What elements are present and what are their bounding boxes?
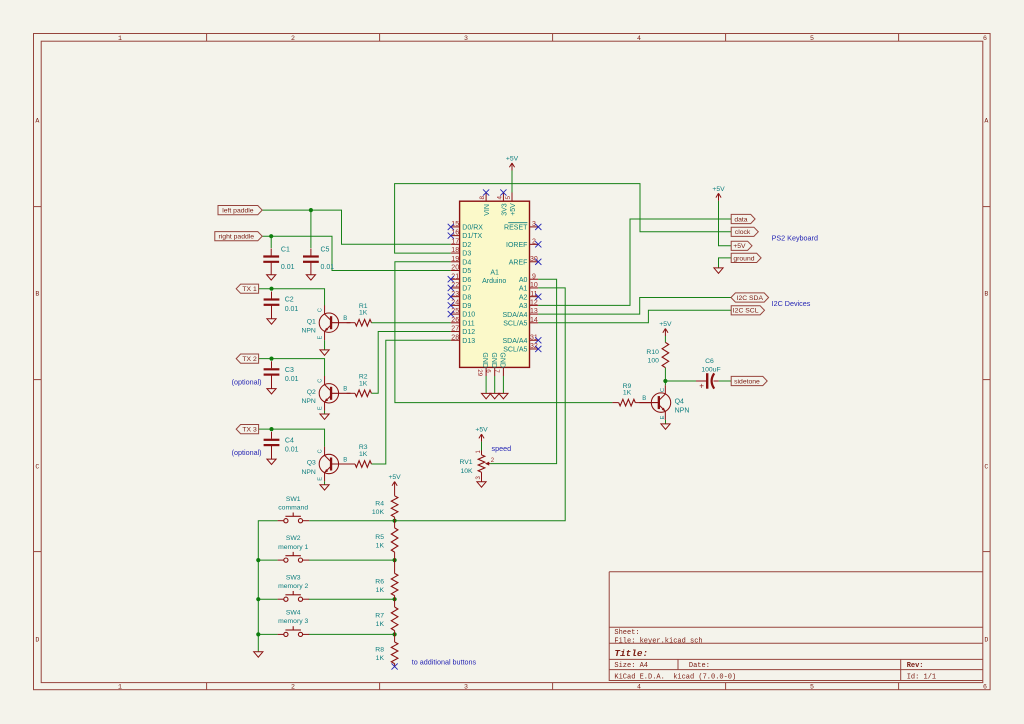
- svg-text:14: 14: [530, 317, 538, 324]
- svg-text:5: 5: [505, 196, 512, 200]
- svg-text:9: 9: [532, 273, 536, 280]
- label TX 3: [236, 425, 258, 434]
- svg-text:31: 31: [530, 334, 538, 341]
- svg-text:IOREF: IOREF: [506, 242, 527, 249]
- junction R10/Q4/C6: [663, 379, 667, 383]
- junction C1/right paddle: [269, 234, 273, 238]
- svg-text:SCL/A5: SCL/A5: [503, 321, 527, 328]
- wire +5V to Arduino pin 5: [511, 171, 513, 193]
- junction R4/buttons: [393, 519, 397, 523]
- resistor R3: [347, 463, 355, 465]
- switch SW2: [284, 558, 288, 562]
- svg-text:SDA/A4: SDA/A4: [502, 312, 527, 319]
- svg-text:Q1: Q1: [307, 318, 316, 325]
- svg-text:1K: 1K: [359, 310, 368, 317]
- svg-text:A3: A3: [519, 303, 528, 310]
- svg-text:memory 1: memory 1: [278, 544, 308, 551]
- svg-text:C5: C5: [321, 246, 330, 253]
- svg-text:SW2: SW2: [286, 535, 301, 542]
- ground C4: [267, 459, 276, 464]
- svg-text:SCL/A5: SCL/A5: [503, 347, 527, 354]
- label ground: [731, 253, 761, 262]
- svg-text:100uF: 100uF: [701, 366, 720, 373]
- svg-text:A1: A1: [490, 269, 499, 276]
- svg-text:clock: clock: [735, 229, 751, 236]
- svg-text:+5V: +5V: [388, 474, 401, 481]
- transistor Q4: [651, 393, 670, 412]
- transistor Q1: [319, 313, 338, 332]
- svg-text:AREF: AREF: [509, 259, 528, 266]
- wire PS2 ground: [719, 258, 732, 268]
- wire SW3 row: [258, 598, 277, 600]
- svg-text:28: 28: [451, 334, 459, 341]
- ground Q4: [661, 424, 670, 429]
- junction C5/left paddle: [309, 208, 313, 212]
- svg-text:D7: D7: [462, 286, 471, 293]
- ground Q3: [320, 485, 329, 490]
- svg-text:R5: R5: [375, 534, 384, 541]
- svg-text:R4: R4: [375, 500, 384, 507]
- svg-text:26: 26: [451, 317, 459, 324]
- wire R3 to D13: [371, 340, 450, 464]
- resistor R8: [394, 634, 396, 642]
- svg-text:B: B: [343, 316, 347, 322]
- wire A3 to PS2 data: [538, 219, 731, 305]
- wire SW2 row: [258, 559, 277, 561]
- wire Q3 emitter to gnd: [324, 481, 326, 484]
- svg-text:PS2 Keyboard: PS2 Keyboard: [772, 234, 818, 243]
- svg-text:D8: D8: [462, 294, 471, 301]
- svg-text:ground: ground: [733, 255, 754, 262]
- svg-text:D: D: [984, 636, 988, 643]
- svg-text:0.01: 0.01: [285, 447, 299, 454]
- wire Arduino GND pins: [485, 376, 487, 393]
- svg-text:File: keyer.kicad_sch: File: keyer.kicad_sch: [614, 637, 702, 645]
- svg-text:6: 6: [983, 35, 987, 42]
- svg-text:SW4: SW4: [286, 610, 301, 617]
- svg-text:32: 32: [530, 343, 538, 350]
- wire SCL/A5 to I2C SCL: [538, 310, 731, 323]
- label sidetone: [731, 376, 767, 385]
- svg-text:E: E: [318, 406, 324, 410]
- wire A0 to RV1 wiper: [490, 279, 556, 463]
- junction rail SW3: [256, 597, 260, 601]
- svg-text:data: data: [734, 216, 747, 223]
- svg-text:C3: C3: [285, 367, 294, 374]
- svg-text:2: 2: [291, 684, 295, 691]
- svg-text:sidetone: sidetone: [734, 378, 760, 385]
- svg-text:Id: 1/1: Id: 1/1: [907, 673, 936, 681]
- label +5V: [731, 241, 752, 250]
- svg-text:A: A: [35, 117, 39, 124]
- ground C2: [267, 319, 276, 324]
- svg-text:+: +: [699, 381, 704, 390]
- wire R1 to D11: [371, 322, 450, 324]
- svg-text:Size: A4: Size: A4: [614, 662, 648, 670]
- svg-text:1K: 1K: [376, 542, 385, 549]
- svg-text:GND: GND: [499, 352, 506, 368]
- svg-text:10: 10: [530, 282, 538, 289]
- +5V R4: [392, 482, 397, 490]
- svg-text:R6: R6: [375, 578, 384, 585]
- svg-text:1K: 1K: [376, 587, 385, 594]
- wire C6 to sidetone: [719, 380, 732, 382]
- wire PS2 +5V: [719, 201, 732, 246]
- wire Q2 emitter to gnd: [324, 411, 326, 414]
- svg-text:D3: D3: [462, 251, 471, 258]
- svg-text:E: E: [660, 415, 666, 419]
- svg-text:D9: D9: [462, 303, 471, 310]
- wire TX1 net: [259, 289, 325, 306]
- svg-text:23: 23: [451, 291, 459, 298]
- svg-text:+5V: +5V: [712, 186, 725, 193]
- svg-text:18: 18: [451, 247, 459, 254]
- svg-text:R10: R10: [646, 349, 659, 356]
- svg-text:C: C: [984, 463, 988, 470]
- svg-text:C4: C4: [285, 437, 294, 444]
- svg-text:15: 15: [451, 221, 459, 228]
- svg-text:TX 3: TX 3: [242, 427, 257, 434]
- wire left paddle to D2: [262, 210, 450, 244]
- wire TX2 net: [259, 359, 325, 377]
- svg-text:A: A: [984, 117, 988, 124]
- svg-text:24: 24: [451, 299, 459, 306]
- svg-text:20: 20: [451, 265, 459, 272]
- svg-text:RESET: RESET: [504, 225, 528, 232]
- label TX 1: [236, 284, 258, 293]
- svg-text:C: C: [660, 388, 666, 392]
- svg-text:30: 30: [530, 256, 538, 263]
- svg-text:1K: 1K: [359, 380, 368, 387]
- wire buttons left rail: [258, 521, 277, 652]
- ground C3: [267, 389, 276, 394]
- svg-text:E: E: [318, 477, 324, 481]
- label I2C SDA: [731, 293, 769, 302]
- IC A1 Arduino: [448, 189, 542, 376]
- ground C5: [306, 275, 315, 280]
- svg-text:4: 4: [637, 35, 641, 42]
- wire A1 to buttons: [309, 288, 565, 521]
- wire PS2 clock to D3: [395, 184, 732, 254]
- svg-text:+5V: +5V: [506, 156, 519, 163]
- svg-text:0.01: 0.01: [285, 376, 299, 383]
- capacitor C4: [271, 432, 273, 439]
- transistor Q2: [319, 384, 338, 403]
- svg-text:C: C: [318, 449, 324, 453]
- svg-text:C: C: [35, 463, 39, 470]
- svg-text:Date:: Date:: [689, 662, 710, 670]
- switch SW3: [284, 597, 288, 601]
- svg-text:NPN: NPN: [301, 398, 315, 405]
- svg-text:3: 3: [464, 684, 468, 691]
- wire SW4 row: [258, 633, 277, 635]
- capacitor C6: [665, 380, 696, 382]
- svg-text:D12: D12: [462, 329, 475, 336]
- svg-text:7: 7: [493, 369, 500, 373]
- svg-text:memory 3: memory 3: [278, 618, 308, 625]
- svg-text:5: 5: [810, 35, 814, 42]
- svg-text:C1: C1: [281, 246, 290, 253]
- svg-text:GND: GND: [490, 352, 497, 368]
- svg-text:Rev:: Rev:: [907, 662, 924, 670]
- svg-text:(optional): (optional): [232, 377, 262, 386]
- resistor R10: [664, 341, 666, 343]
- svg-text:1: 1: [118, 35, 122, 42]
- svg-text:Arduino: Arduino: [482, 278, 506, 285]
- svg-text:A1: A1: [519, 286, 528, 293]
- svg-text:NPN: NPN: [301, 328, 315, 335]
- svg-text:R7: R7: [375, 613, 384, 620]
- svg-text:D1/TX: D1/TX: [462, 233, 482, 240]
- svg-text:22: 22: [451, 282, 459, 289]
- svg-text:8: 8: [479, 196, 486, 200]
- svg-text:A0: A0: [519, 277, 528, 284]
- svg-text:NPN: NPN: [301, 469, 315, 476]
- label TX 2: [236, 354, 258, 363]
- svg-text:E: E: [318, 336, 324, 340]
- svg-text:4: 4: [496, 196, 503, 200]
- svg-text:(optional): (optional): [232, 448, 262, 457]
- svg-text:B: B: [343, 457, 347, 463]
- svg-text:+5V: +5V: [475, 427, 488, 434]
- svg-text:1: 1: [118, 684, 122, 691]
- ground C1: [267, 275, 276, 280]
- svg-text:5: 5: [810, 684, 814, 691]
- junction C3/TX2: [269, 357, 273, 361]
- +5V PS2: [716, 193, 721, 201]
- svg-text:SW3: SW3: [286, 574, 301, 581]
- svg-text:B: B: [35, 290, 39, 297]
- svg-text:0.01: 0.01: [285, 306, 299, 313]
- +5V R10: [663, 329, 668, 337]
- wire TX3 net: [259, 429, 325, 447]
- svg-text:17: 17: [451, 238, 459, 245]
- resistor R1: [347, 322, 355, 324]
- +5V RV1: [479, 434, 484, 442]
- junction R6/SW3: [393, 597, 397, 601]
- junction C2/TX1: [269, 287, 273, 291]
- svg-text:D10: D10: [462, 312, 475, 319]
- svg-text:27: 27: [451, 326, 459, 333]
- label left paddle: [218, 206, 262, 215]
- svg-text:29: 29: [476, 369, 483, 377]
- svg-text:left paddle: left paddle: [222, 208, 254, 215]
- svg-text:D: D: [35, 636, 39, 643]
- resistor R5: [394, 521, 396, 528]
- svg-text:B: B: [984, 290, 988, 297]
- wire Q4 emitter to gnd: [665, 420, 667, 424]
- wire D4 to R9 sidetone: [395, 262, 613, 403]
- label clock: [731, 227, 758, 236]
- svg-text:1K: 1K: [359, 451, 368, 458]
- svg-text:3V3: 3V3: [501, 203, 508, 216]
- wire SDA/A4 to I2C SDA: [538, 298, 731, 315]
- svg-text:2: 2: [291, 35, 295, 42]
- resistor R6: [394, 560, 396, 573]
- capacitor C1: [270, 249, 272, 256]
- svg-text:TX 2: TX 2: [242, 356, 257, 363]
- resistor R2: [347, 392, 355, 394]
- svg-text:RV1: RV1: [459, 459, 472, 466]
- svg-text:I2C Devices: I2C Devices: [772, 299, 811, 308]
- ground PS2: [714, 268, 723, 273]
- junction R7/SW4: [393, 632, 397, 636]
- svg-text:B: B: [642, 396, 646, 402]
- svg-text:I2C SDA: I2C SDA: [737, 295, 764, 302]
- svg-text:25: 25: [451, 308, 459, 315]
- svg-text:+5V: +5V: [510, 203, 517, 216]
- svg-text:C: C: [318, 308, 324, 312]
- svg-text:10K: 10K: [372, 509, 385, 516]
- ground Q1: [320, 350, 329, 355]
- svg-text:NPN: NPN: [675, 407, 690, 414]
- svg-text:C: C: [318, 379, 324, 383]
- label right paddle: [215, 232, 262, 241]
- svg-text:C6: C6: [705, 358, 714, 365]
- svg-text:SW1: SW1: [286, 496, 301, 503]
- svg-text:12: 12: [530, 299, 538, 306]
- svg-text:Title:: Title:: [614, 648, 648, 659]
- ground RV1: [477, 482, 486, 487]
- wire RV1 top: [481, 442, 483, 451]
- svg-text:21: 21: [451, 273, 459, 280]
- +5V above Arduino: [509, 163, 514, 171]
- capacitor C5: [310, 249, 312, 256]
- svg-text:command: command: [278, 504, 308, 511]
- svg-text:D0/RX: D0/RX: [462, 225, 483, 232]
- wire R2 to D12: [371, 332, 450, 394]
- resistor R4: [394, 489, 396, 496]
- svg-text:KiCad E.D.A. kicad (7.0.0-0): KiCad E.D.A. kicad (7.0.0-0): [614, 673, 736, 681]
- wire Q1 emitter to gnd: [324, 340, 326, 350]
- svg-text:SDA/A4: SDA/A4: [502, 338, 527, 345]
- label I2C SCL: [731, 306, 764, 315]
- svg-text:1K: 1K: [623, 390, 632, 397]
- ground Arduino GND: [482, 393, 491, 398]
- svg-text:Sheet:: Sheet:: [614, 629, 639, 637]
- svg-text:speed: speed: [492, 444, 512, 453]
- wire C5 stem: [310, 210, 312, 248]
- capacitor C2: [271, 292, 273, 299]
- svg-text:A2: A2: [519, 294, 528, 301]
- svg-text:right paddle: right paddle: [219, 234, 255, 241]
- svg-text:D6: D6: [462, 277, 471, 284]
- transistor Q3: [319, 454, 338, 473]
- svg-text:Q4: Q4: [675, 398, 684, 405]
- svg-text:D13: D13: [462, 338, 475, 345]
- svg-text:R8: R8: [375, 647, 384, 654]
- svg-text:6: 6: [983, 684, 987, 691]
- svg-text:0.01: 0.01: [321, 264, 335, 271]
- switch SW4: [284, 632, 288, 636]
- svg-text:D2: D2: [462, 242, 471, 249]
- junction C4/TX3: [269, 427, 273, 431]
- svg-text:to additional buttons: to additional buttons: [412, 658, 477, 667]
- svg-text:VIN: VIN: [484, 204, 491, 216]
- svg-text:D4: D4: [462, 259, 471, 266]
- svg-text:Q2: Q2: [307, 389, 316, 396]
- svg-text:TX 1: TX 1: [242, 286, 257, 293]
- label data: [731, 214, 755, 223]
- svg-text:16: 16: [451, 230, 459, 237]
- svg-text:4: 4: [637, 684, 641, 691]
- svg-text:100: 100: [648, 357, 660, 364]
- svg-text:19: 19: [451, 256, 459, 263]
- svg-text:10K: 10K: [461, 468, 474, 475]
- svg-text:C2: C2: [285, 297, 294, 304]
- resistor R7: [394, 599, 396, 607]
- resistor R9: [612, 402, 618, 404]
- wire R10 node: [664, 336, 666, 342]
- junction R5/SW2: [393, 558, 397, 562]
- junction rail SW4: [256, 632, 260, 636]
- ground Q2: [320, 414, 329, 419]
- svg-text:3: 3: [464, 35, 468, 42]
- svg-text:Q3: Q3: [307, 460, 316, 467]
- svg-text:B: B: [343, 387, 347, 393]
- svg-text:0.01: 0.01: [281, 264, 295, 271]
- svg-text:13: 13: [530, 308, 538, 315]
- title block: [609, 572, 983, 682]
- svg-text:GND: GND: [481, 352, 488, 368]
- svg-text:+5V: +5V: [659, 321, 672, 328]
- potentiometer RV1: [481, 451, 483, 455]
- svg-text:6: 6: [484, 369, 491, 373]
- svg-text:+5V: +5V: [733, 243, 746, 250]
- ground button rail: [254, 652, 263, 657]
- svg-text:D11: D11: [462, 320, 474, 327]
- wire C1 stem: [270, 236, 272, 248]
- no-connect R8: [392, 663, 398, 669]
- svg-text:1K: 1K: [376, 621, 385, 628]
- svg-text:I2C SCL: I2C SCL: [733, 308, 759, 315]
- switch SW1: [284, 519, 288, 523]
- svg-text:1K: 1K: [376, 655, 385, 662]
- svg-text:memory 2: memory 2: [278, 583, 308, 590]
- wire right paddle to D5: [263, 236, 451, 270]
- svg-text:D5: D5: [462, 268, 471, 275]
- capacitor C3: [271, 361, 273, 368]
- junction rail SW2: [256, 558, 260, 562]
